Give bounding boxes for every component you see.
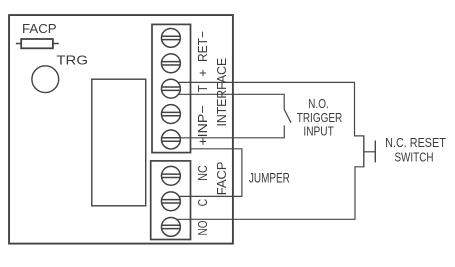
svg-text:NO: NO <box>195 221 210 236</box>
svg-text:FACP: FACP <box>214 161 229 195</box>
svg-text:NC: NC <box>195 165 210 181</box>
svg-text:RET−: RET− <box>195 31 210 62</box>
svg-text:INTERFACE: INTERFACE <box>214 58 229 127</box>
svg-text:N.O.: N.O. <box>308 96 329 111</box>
svg-text:TRG: TRG <box>56 52 88 67</box>
svg-text:SWITCH: SWITCH <box>394 149 433 164</box>
svg-text:+INP−: +INP− <box>195 105 210 146</box>
svg-text:JUMPER: JUMPER <box>249 170 290 185</box>
svg-text:+: + <box>195 69 210 77</box>
svg-text:FACP: FACP <box>22 21 57 36</box>
svg-text:C: C <box>195 198 210 206</box>
svg-text:INPUT: INPUT <box>303 123 333 138</box>
svg-text:N.C. RESET: N.C. RESET <box>385 135 446 150</box>
svg-text:T: T <box>195 85 210 92</box>
